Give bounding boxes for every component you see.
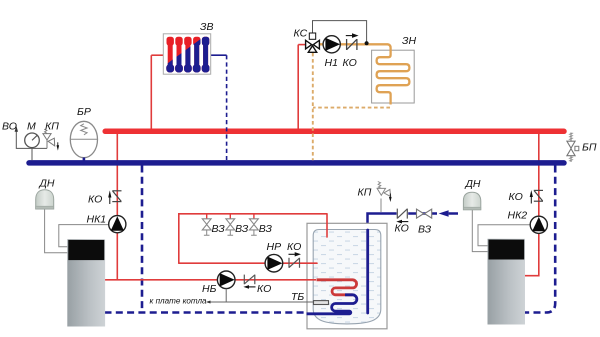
svg-text:НР: НР [267, 241, 282, 253]
svg-text:НБ: НБ [202, 283, 217, 295]
svg-text:ТБ: ТБ [291, 291, 304, 303]
svg-text:КО: КО [257, 283, 271, 295]
svg-text:КП: КП [45, 120, 59, 132]
svg-text:БР: БР [77, 106, 91, 118]
svg-text:КО: КО [343, 57, 357, 69]
svg-text:КС: КС [294, 28, 308, 40]
svg-text:ВО: ВО [2, 120, 17, 132]
svg-text:М: М [27, 120, 36, 132]
svg-text:КО: КО [509, 191, 523, 203]
svg-text:КО: КО [287, 241, 301, 253]
svg-text:ВЗ: ВЗ [212, 223, 226, 235]
svg-text:ЗВ: ЗВ [200, 21, 213, 33]
svg-text:БП: БП [582, 142, 597, 154]
svg-text:ВЗ: ВЗ [235, 223, 249, 235]
svg-text:Н1: Н1 [325, 57, 338, 69]
svg-text:ДН: ДН [39, 178, 55, 190]
svg-text:КО: КО [88, 194, 102, 206]
svg-text:к плате котла: к плате котла [150, 297, 208, 306]
svg-text:КП: КП [358, 187, 372, 199]
svg-text:НК2: НК2 [508, 210, 528, 222]
svg-text:НК1: НК1 [87, 213, 107, 225]
svg-text:ВЗ: ВЗ [259, 223, 273, 235]
svg-text:ДН: ДН [465, 178, 481, 190]
svg-text:ВЗ: ВЗ [418, 224, 432, 236]
svg-text:ЗН: ЗН [402, 35, 416, 47]
svg-text:КО: КО [395, 223, 409, 235]
